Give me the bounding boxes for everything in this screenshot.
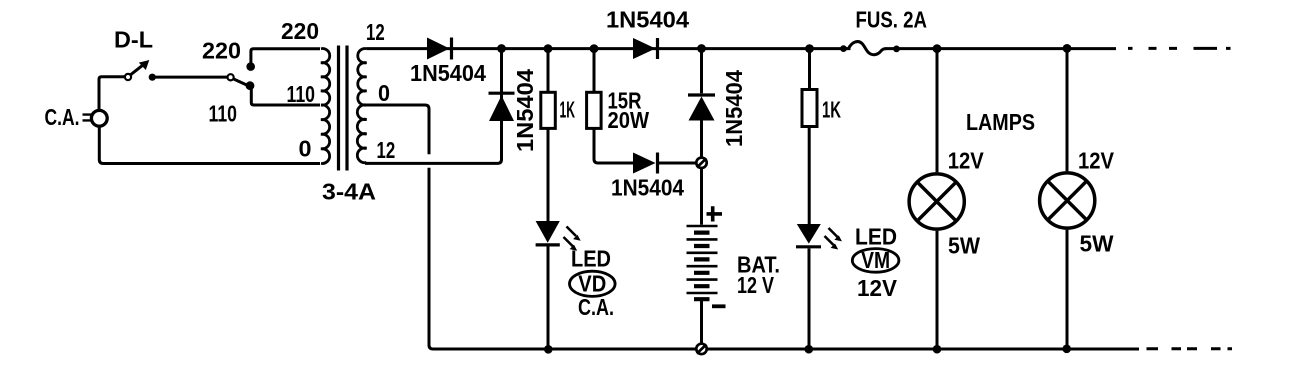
wire R2 down and right to diode D5	[594, 128, 633, 163]
svg-text:LED: LED	[855, 224, 897, 250]
junction dot bottom rail/VM branch	[805, 345, 814, 354]
wire bottom rail dashed continuation	[1147, 347, 1233, 350]
svg-text:FUS. 2A: FUS. 2A	[856, 7, 928, 33]
switch D-L throw dot	[149, 74, 156, 81]
junction dot rail/R3	[805, 44, 814, 53]
junction dot rail/battery branch	[697, 44, 706, 53]
oval VM	[852, 249, 899, 273]
resistor R1 1K body	[541, 92, 556, 128]
svg-text:1N5404: 1N5404	[721, 70, 747, 147]
junction dot rail/D2	[497, 44, 506, 53]
junction dot rail/R2	[590, 44, 599, 53]
svg-text:C.A.: C.A.	[578, 294, 614, 320]
diode D2 1N5404 (vertical, conducts up)	[489, 96, 514, 122]
switch selector lever	[233, 79, 247, 86]
wire secondary center tap 0 down to bottom rail (crossover gap at y163)	[367, 105, 430, 154]
wire AC loop from plug up to D-L switch	[99, 77, 125, 111]
diode D1 1N5404 (top rail from secondary 12)	[427, 38, 450, 60]
wire rail to lamp L2	[1066, 48, 1069, 171]
wire rail to resistor R3	[808, 49, 811, 90]
junction dot rail/L2	[1063, 44, 1072, 53]
AC plug circle	[91, 110, 107, 126]
diode D5 1N5404 (charge path, points right)	[633, 153, 656, 174]
svg-text:3-4A: 3-4A	[322, 178, 376, 204]
svg-text:LAMPS: LAMPS	[966, 109, 1035, 135]
svg-text:12V: 12V	[857, 275, 897, 301]
switch D-L lever	[131, 64, 145, 75]
diode D4 1N5404 (vertical, conducts up from battery)	[688, 93, 715, 96]
junction dot bottom rail/L2	[1062, 345, 1071, 354]
svg-text:5W: 5W	[948, 233, 981, 259]
svg-text:220: 220	[202, 37, 241, 63]
wire secondary bottom 12 tap to diode D2 branch	[365, 49, 502, 164]
svg-text:1N5404: 1N5404	[410, 60, 486, 86]
svg-text:12: 12	[366, 19, 385, 45]
fuse FUS 2A	[840, 45, 847, 52]
wire LED VD to bottom rail	[547, 247, 550, 350]
transformer T1 secondary winding	[358, 49, 367, 106]
wire 220 contact to transformer 220 tap	[251, 49, 320, 67]
svg-text:C.A.: C.A.	[45, 104, 80, 130]
wire rail to resistor R1	[547, 49, 550, 93]
wire rail to diode D4	[700, 49, 703, 94]
svg-text:D-L: D-L	[114, 27, 153, 53]
svg-text:220: 220	[281, 18, 319, 44]
LED VD (indicator, cathode down)	[536, 221, 560, 243]
wire rail to resistor R2	[593, 49, 596, 93]
terminal (battery -) circle with slash	[696, 344, 706, 354]
battery BAT 12V plates	[687, 226, 718, 293]
label + (battery)	[707, 206, 723, 221]
wire LED VM to bottom rail	[808, 249, 811, 350]
LED VM light arrows	[829, 228, 838, 237]
wire battery - to bottom terminal	[700, 301, 703, 344]
diode D3 1N5404 (top rail, points right)	[633, 38, 656, 59]
wire D5 to battery terminal	[659, 162, 696, 165]
resistor R3 1K body	[802, 90, 817, 127]
lamp L1 12V 5W	[909, 174, 964, 229]
oval VD	[570, 271, 616, 296]
transformer T1 core	[339, 46, 348, 171]
LED VD light arrows	[567, 227, 577, 237]
node 220 contact dot	[246, 62, 255, 71]
svg-text:VM: VM	[861, 247, 890, 273]
svg-text:1K: 1K	[822, 97, 841, 123]
wire R3 to LED VM	[808, 127, 811, 225]
wire 110 contact to transformer 110 tap	[251, 86, 320, 105]
svg-text:1N5404: 1N5404	[512, 69, 538, 152]
junction dot bottom rail/VD branch	[544, 345, 553, 354]
wire top rail from fuse to right end	[886, 47, 1117, 50]
svg-text:LED: LED	[571, 246, 611, 272]
terminal (battery +) circle with slash	[696, 158, 706, 168]
svg-text:12V: 12V	[948, 147, 984, 173]
label - (battery)	[712, 304, 726, 308]
wire D-L to voltage selector	[156, 76, 228, 79]
svg-text:VD: VD	[578, 270, 606, 296]
wire terminal to battery top plate	[700, 168, 703, 224]
svg-text:1N5404: 1N5404	[606, 7, 689, 33]
lamp L2 12V 5W	[1040, 173, 1095, 228]
svg-text:5W: 5W	[1080, 231, 1115, 257]
switch selector pole circle	[228, 74, 234, 80]
svg-text:20W: 20W	[608, 107, 650, 133]
junction dot rail/L1	[933, 44, 942, 53]
resistor R2 15R 20W body	[587, 92, 602, 128]
wire AC loop from plug down along bottom to transformer primary 0	[99, 127, 320, 164]
node 110 contact dot	[246, 81, 255, 90]
wire D4 to battery + terminal	[700, 121, 703, 158]
wire top rail from secondary 12 tap to fuse	[367, 47, 851, 50]
svg-text:1K: 1K	[560, 97, 576, 123]
svg-text:0: 0	[299, 136, 312, 162]
wire lamp L1 to bottom rail	[936, 231, 939, 349]
wire lamp L2 to bottom rail	[1066, 230, 1069, 349]
switch D-L pole circle	[125, 74, 131, 80]
svg-text:1N5404: 1N5404	[611, 175, 684, 201]
switch D-L arrowhead	[139, 60, 150, 70]
wire rail to lamp L1	[936, 49, 939, 173]
wire top rail dashed continuation	[1128, 47, 1231, 50]
svg-text:110: 110	[209, 101, 238, 127]
junction dot bottom rail/L1	[933, 345, 942, 354]
svg-text:12: 12	[377, 137, 396, 163]
wire R1 to LED VD	[547, 128, 550, 221]
transformer T1 primary winding	[321, 49, 330, 106]
svg-text:0: 0	[378, 80, 390, 106]
svg-text:12V: 12V	[1078, 148, 1114, 174]
svg-text:110: 110	[287, 81, 316, 107]
svg-text:12 V: 12 V	[737, 272, 774, 298]
AC plug prongs	[83, 115, 94, 121]
LED VM (indicator, cathode down)	[797, 224, 821, 244]
junction dot rail/R1	[544, 44, 553, 53]
